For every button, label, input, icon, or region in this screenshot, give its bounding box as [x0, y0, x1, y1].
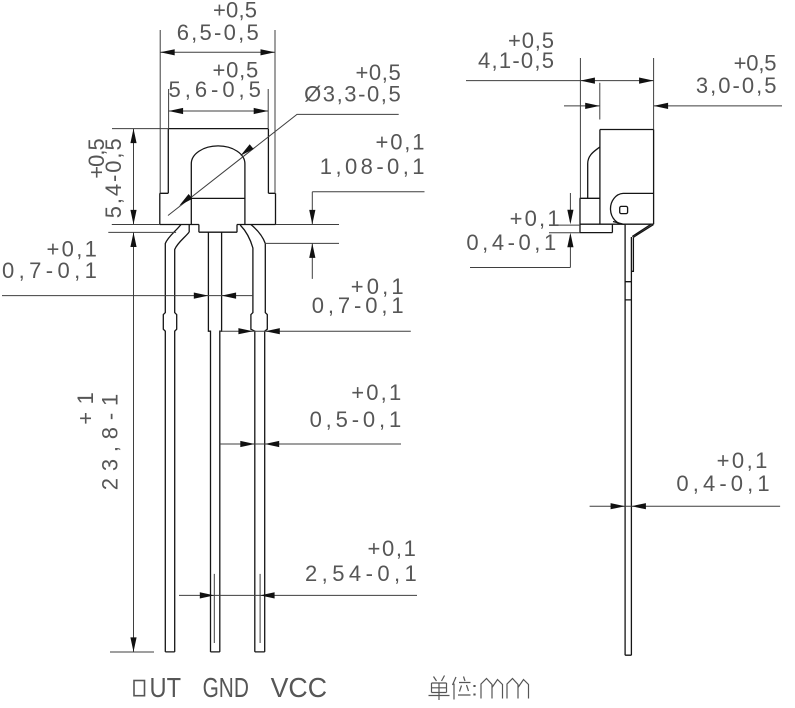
dome lens front view [191, 146, 245, 225]
svg-text:Ø3,3-0,5: Ø3,3-0,5 [304, 82, 401, 107]
flange bottom front view [160, 225, 276, 233]
arrows 0,5 [240, 441, 255, 447]
svg-text:VCC: VCC [271, 672, 327, 703]
svg-text:+0,1: +0,1 [717, 448, 768, 473]
svg-text:UT: UT [150, 672, 182, 703]
svg-text:+0,1: +0,1 [368, 536, 416, 561]
lead VCC (right leg) [240, 225, 267, 652]
dim 0,4 lower line [590, 505, 781, 507]
leader dia 3,3 [168, 114, 399, 215]
dim 2,54 ext lines [214, 574, 260, 643]
lead OUT (left leg) [163, 225, 189, 652]
unit note 单位: mm [429, 676, 529, 701]
arrows 23,8 [130, 233, 136, 248]
dim 0,4 upper ext [549, 225, 580, 233]
hanzi dan [429, 676, 450, 701]
dim 5,6 line [169, 110, 269, 112]
dim 5,4 extension + line [112, 129, 168, 225]
lead GND (center leg) [208, 232, 221, 652]
side view package [580, 130, 654, 233]
arrows 5,6 [169, 108, 184, 114]
arrows 6,5 [160, 49, 175, 55]
dim 4,1 ext lines [580, 58, 653, 198]
hanzi wei [453, 677, 471, 700]
svg-text:+0,1: +0,1 [351, 380, 401, 405]
svg-text:2,54-0,1: 2,54-0,1 [305, 561, 417, 586]
svg-text:+0,1: +0,1 [510, 206, 560, 231]
svg-text:5,4-0,5: 5,4-0,5 [101, 138, 126, 218]
dim 23,8 line [110, 233, 154, 653]
arrows dia 3,3 [240, 144, 253, 156]
dim 3,0 line [564, 105, 782, 107]
svg-text:1,08-0,1: 1,08-0,1 [320, 154, 425, 179]
svg-text:GND: GND [203, 672, 249, 703]
dim 2,54 line [179, 594, 417, 596]
arrows 5,4 [130, 129, 136, 144]
arrows 1,08 [309, 210, 315, 225]
arrows 3,0 [585, 103, 600, 109]
dim 6,5 extension lines [160, 30, 275, 193]
ext seating left [108, 231, 176, 233]
pin label OUT [134, 681, 145, 696]
dim 6,5 line [160, 51, 275, 53]
dim 4,1 line [466, 80, 654, 82]
dim 5,6 extension lines [169, 89, 269, 128]
dim 0,7 center line [2, 295, 253, 297]
arrows 0,4 lower [611, 503, 626, 509]
arrows 0,4 upper [567, 210, 573, 225]
body outline front view [160, 129, 276, 225]
svg-text:+0,5: +0,5 [734, 50, 777, 75]
mm letters [481, 679, 529, 699]
side view sensor stadium [610, 193, 653, 224]
svg-text:3,0-0,5: 3,0-0,5 [696, 73, 777, 98]
arrows 0,7 center [194, 293, 209, 299]
dim 0,5 line [220, 443, 401, 445]
dim 0,7 right line [220, 330, 411, 332]
arrows 4,1 [580, 78, 595, 84]
dim 3,0 front extension [599, 83, 601, 120]
colon [473, 685, 475, 696]
dim 0,4 upper line [470, 193, 570, 268]
svg-text:4,1-0,5: 4,1-0,5 [478, 48, 554, 73]
side view lead [625, 224, 653, 655]
svg-text:+0,1: +0,1 [376, 130, 425, 155]
arrows 0,7 right [238, 328, 253, 334]
dim 1,08 leader + line [265, 192, 425, 279]
side view sensor square [620, 206, 628, 213]
ext flange bottom left [112, 224, 160, 226]
arrows 2,54 [200, 592, 215, 598]
